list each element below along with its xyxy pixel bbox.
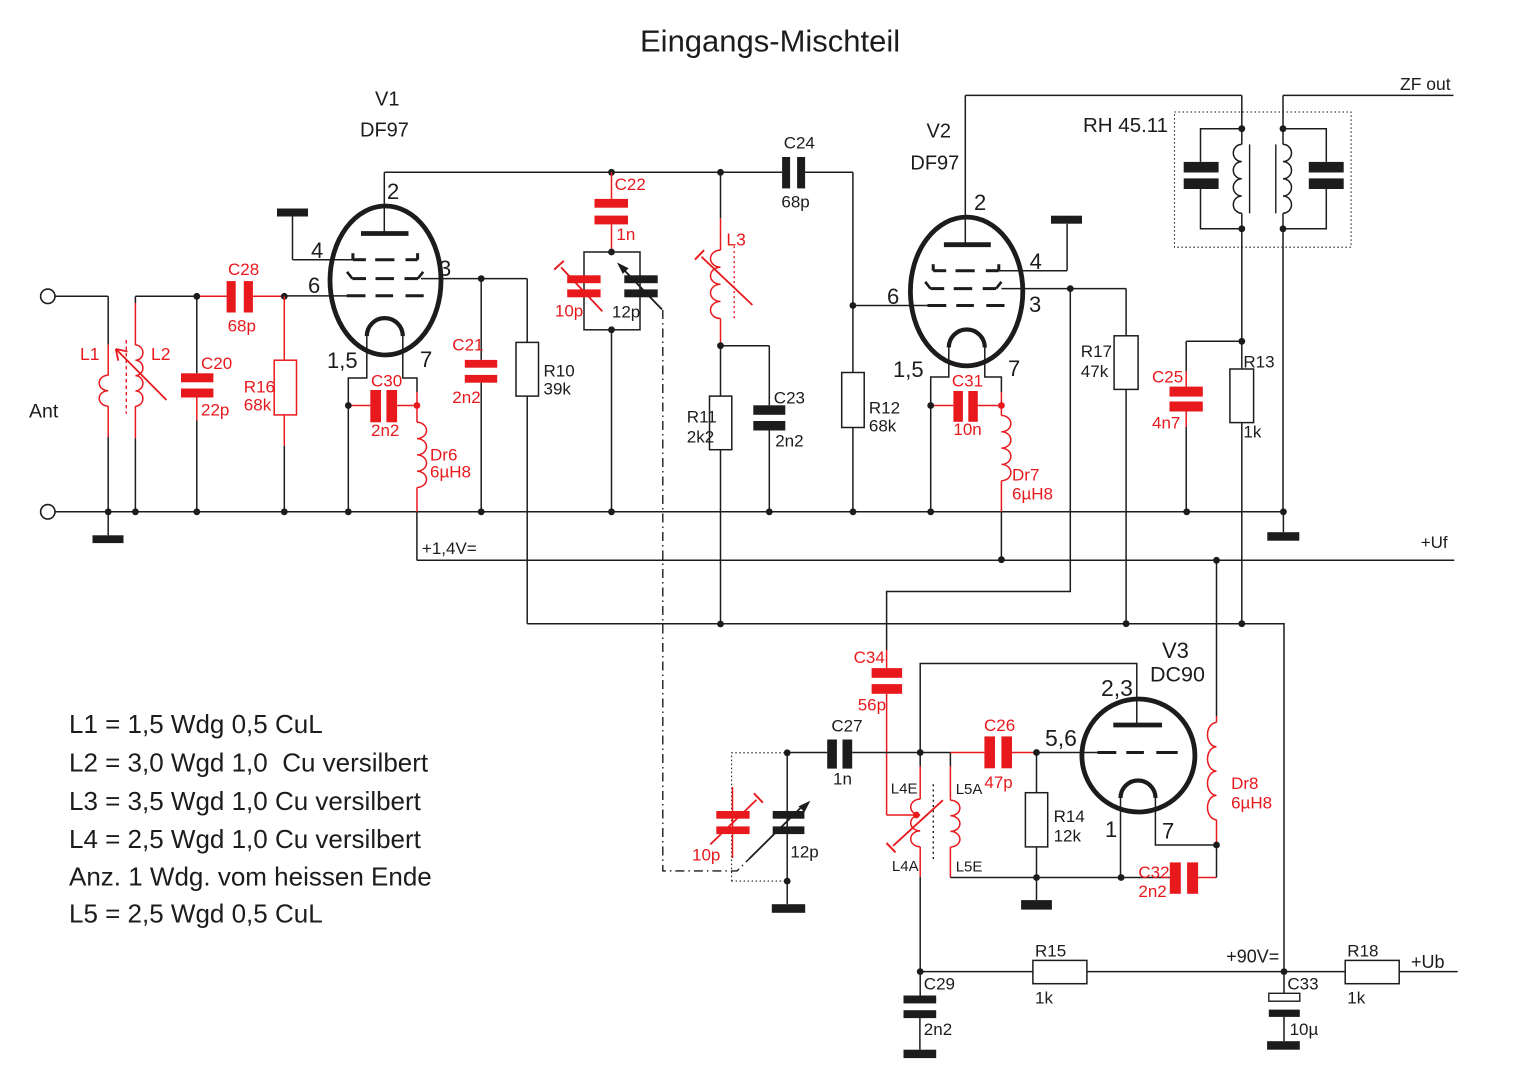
inductor L4 — [911, 753, 921, 972]
V3 pin 5,6 label — [1045, 725, 1077, 751]
svg-text:C20: C20 — [201, 354, 232, 373]
inductor L5 — [950, 753, 960, 878]
label 12p osc — [790, 843, 818, 862]
capacitor C26 — [950, 736, 1036, 768]
V2 pin 3 label — [1029, 292, 1041, 317]
inductor Dr7 — [1001, 392, 1011, 512]
label C30 — [371, 372, 402, 441]
capacitor C33 electrolytic — [1267, 972, 1300, 1050]
svg-text:RH 45.11: RH 45.11 — [1083, 114, 1168, 137]
V3 pin 7 label — [1162, 819, 1174, 844]
V2 cathode — [931, 330, 1002, 406]
resistor R16 — [274, 296, 296, 512]
wire V2 pin 6 — [853, 305, 928, 307]
node osc box bottom — [784, 878, 791, 885]
label L4E — [891, 781, 918, 798]
svg-text:C25: C25 — [1152, 368, 1183, 387]
capacitor C21 — [465, 279, 497, 512]
label 10p — [555, 302, 583, 321]
svg-text:47k: 47k — [1081, 362, 1109, 381]
svg-text:10p: 10p — [692, 846, 720, 865]
svg-text:R10: R10 — [544, 362, 575, 381]
resistor R17 — [1114, 289, 1138, 624]
trimmer assembly box — [584, 252, 640, 330]
legend coil winding data — [69, 709, 432, 928]
node C28-R16 — [281, 293, 288, 300]
svg-text:+Ub: +Ub — [1411, 952, 1445, 972]
node R17 rail — [1123, 620, 1130, 627]
label C28 — [228, 260, 260, 336]
svg-text:R13: R13 — [1243, 353, 1274, 372]
transformer secondary winding — [1283, 129, 1292, 229]
label V2 DF97 — [910, 153, 959, 175]
capacitor C31 — [931, 391, 998, 422]
svg-text:V3: V3 — [1162, 638, 1189, 663]
inductor Dr8 — [1208, 716, 1217, 845]
trimmer capacitor 10p osc — [710, 787, 763, 858]
label R12 — [869, 399, 900, 436]
label C27 — [831, 717, 862, 789]
svg-text:2: 2 — [387, 179, 399, 204]
svg-text:L2: L2 — [151, 344, 170, 364]
dotted box oscillator trimmer — [732, 753, 788, 881]
V2 pin4 wire — [999, 224, 1067, 271]
V1 ground g2 — [277, 209, 353, 260]
wire V1 pins 1,5 to bus — [347, 406, 349, 512]
node rail-L3 — [717, 169, 724, 176]
V1 pin labels 1,5 and 7 — [327, 347, 432, 373]
node C20-C28 — [193, 293, 200, 300]
wire ZF out — [1283, 95, 1454, 128]
svg-text:6: 6 — [887, 284, 899, 309]
svg-text:+90V=: +90V= — [1226, 947, 1279, 967]
mechanical tuning link — [663, 310, 749, 871]
wire ground bus — [55, 511, 1283, 513]
node C31 right — [998, 402, 1005, 409]
capacitor C34 — [872, 650, 913, 815]
label L5A — [956, 781, 983, 798]
node pin3 V2 — [1067, 285, 1074, 292]
inductor L1 — [99, 296, 108, 512]
svg-text:L5A: L5A — [956, 781, 983, 798]
label RH 45.11 — [1083, 114, 1168, 137]
tube V1 envelope — [330, 206, 441, 355]
capacitor C22 — [595, 172, 629, 252]
svg-text:L1 = 1,5 Wdg 0,5 CuL: L1 = 1,5 Wdg 0,5 CuL — [69, 709, 323, 739]
svg-text:C34: C34 — [854, 648, 885, 667]
wire +Uf to Dr8 — [1216, 560, 1218, 716]
svg-text:L1: L1 — [80, 344, 99, 364]
label Dr6 — [430, 446, 471, 482]
node Dr7 +Uf — [998, 556, 1005, 563]
svg-text:2n2: 2n2 — [924, 1020, 952, 1039]
V1 grid row g1 — [347, 294, 424, 297]
svg-text:+1,4V=: +1,4V= — [422, 539, 477, 558]
V2 grid row g2 — [925, 282, 1001, 289]
V1 grid row g2 — [347, 272, 423, 279]
svg-text:+Uf: +Uf — [1421, 533, 1448, 552]
wire C24 to V2 grid — [852, 172, 854, 305]
ground symbol R14 — [1021, 878, 1052, 910]
svg-text:68p: 68p — [228, 317, 256, 336]
label V1 DF97 — [360, 120, 409, 142]
svg-text:L3 = 3,5 Wgd 1,0 Cu versilbert: L3 = 3,5 Wgd 1,0 Cu versilbert — [69, 786, 422, 816]
svg-text:L2 = 3,0 Wgd 1,0 Cu versilber: L2 = 3,0 Wgd 1,0 Cu versilbert — [69, 748, 429, 778]
label R15 — [1035, 942, 1066, 1008]
label +Ub — [1411, 952, 1445, 972]
svg-text:L5 = 2,5 Wgd 0,5 CuL: L5 = 2,5 Wgd 0,5 CuL — [69, 899, 323, 929]
antenna terminal bottom — [41, 505, 55, 519]
label R17 — [1081, 342, 1112, 381]
label R11 — [687, 408, 717, 447]
label C29 — [924, 975, 955, 1040]
label R14 — [1054, 807, 1085, 846]
label C24 — [781, 134, 814, 212]
resistor R14 — [1025, 753, 1047, 878]
svg-text:V2: V2 — [927, 121, 951, 143]
svg-text:47p: 47p — [984, 773, 1012, 792]
V1 pin 6 label — [308, 273, 320, 298]
transformer nodes — [1238, 125, 1286, 232]
capacitor C25 — [1170, 341, 1242, 512]
node V3 pin1 bottom — [1118, 874, 1125, 881]
wire V1 pin3 — [421, 278, 527, 280]
wire antenna to L1 — [55, 295, 108, 297]
label C25 — [1152, 368, 1183, 433]
svg-text:C21: C21 — [452, 336, 483, 355]
wire L4 L5 tops — [920, 752, 950, 754]
label R10 — [544, 362, 575, 399]
node V2 grid — [850, 302, 857, 309]
label V3 — [1162, 638, 1189, 663]
variable capacitor 12p osc — [749, 753, 810, 881]
svg-text:R12: R12 — [869, 399, 900, 418]
svg-text:C30: C30 — [371, 372, 402, 391]
ground symbol oscillator — [772, 881, 805, 913]
V2 anode — [944, 95, 991, 244]
antenna terminal top — [41, 289, 55, 303]
node R13 rail — [1238, 620, 1245, 627]
svg-text:2: 2 — [974, 190, 986, 215]
V2 pin labels 1,5 and 7 — [893, 356, 1020, 382]
capacitor C30 — [348, 390, 413, 422]
V1 pin 2 label — [387, 179, 399, 204]
svg-text:56p: 56p — [858, 696, 886, 715]
node pin3-C21 — [478, 275, 485, 282]
label R13 — [1243, 353, 1274, 442]
transformer core — [1250, 144, 1276, 213]
svg-text:C33: C33 — [1287, 975, 1318, 994]
V2 grid row g3 — [933, 264, 999, 271]
svg-text:4: 4 — [311, 238, 323, 263]
label L3 — [726, 230, 745, 250]
capacitor C24 — [782, 157, 805, 188]
V3 cathode — [1121, 781, 1217, 878]
resistor R15 — [1033, 960, 1087, 983]
capacitor C32 — [1170, 845, 1217, 894]
svg-text:DF97: DF97 — [910, 153, 959, 175]
label C26 — [984, 716, 1015, 792]
label L1 — [80, 344, 99, 364]
node osc box top — [784, 749, 791, 756]
svg-text:6: 6 — [308, 273, 320, 298]
wire L4 anode riser — [920, 664, 1137, 753]
label C32 — [1138, 863, 1169, 901]
wire trimmer box to bus — [611, 330, 613, 512]
svg-text:C27: C27 — [831, 717, 862, 736]
V3 pin 1 label — [1105, 817, 1117, 842]
node Dr8 pin7 — [1213, 842, 1220, 849]
wire +90V bottom rail — [920, 971, 1457, 973]
svg-text:2n2: 2n2 — [371, 421, 399, 440]
node box bottom — [608, 326, 615, 333]
wire V1 anode rail — [384, 171, 853, 173]
wire cathode rail — [950, 877, 1169, 879]
V1 pin 4 label — [311, 238, 323, 263]
svg-text:1n: 1n — [833, 770, 852, 789]
svg-text:2k2: 2k2 — [687, 428, 714, 447]
svg-text:7: 7 — [1008, 356, 1020, 381]
V2 pin 2 label — [974, 190, 986, 215]
label ZF out — [1400, 74, 1451, 94]
ground symbol secondary — [1267, 512, 1299, 541]
label R16 — [244, 378, 275, 415]
label 12p — [612, 303, 640, 322]
core line L3 — [733, 246, 735, 318]
trimmer capacitor 10p — [554, 261, 602, 312]
node C30 left — [345, 402, 352, 409]
svg-text:1k: 1k — [1347, 989, 1365, 1008]
svg-text:L4E: L4E — [891, 781, 918, 798]
svg-text:2,3: 2,3 — [1101, 675, 1133, 701]
wire secondary to ground — [1282, 229, 1284, 512]
svg-text:C22: C22 — [615, 175, 646, 194]
svg-text:6µH8: 6µH8 — [1231, 794, 1272, 813]
wire +Uf rail — [417, 559, 1454, 561]
label Dr7 — [1012, 466, 1053, 504]
svg-text:12p: 12p — [612, 303, 640, 322]
label C31 — [952, 372, 983, 440]
svg-text:C23: C23 — [774, 389, 805, 408]
svg-text:C28: C28 — [228, 260, 259, 279]
svg-text:12p: 12p — [790, 843, 818, 862]
ground symbol antenna — [93, 512, 124, 543]
label +90V= — [1226, 947, 1279, 967]
label R18 — [1347, 942, 1378, 1008]
tube V2 envelope — [910, 217, 1022, 366]
node Dr8 +Uf — [1213, 557, 1220, 564]
svg-text:R16: R16 — [244, 378, 275, 397]
label C22 — [615, 175, 646, 244]
svg-text:C26: C26 — [984, 716, 1015, 735]
node C34 tap — [913, 812, 920, 819]
trimmer arrow L4 — [887, 800, 943, 852]
svg-text:1n: 1n — [616, 225, 635, 244]
svg-text:Dr8: Dr8 — [1231, 774, 1258, 793]
label V3 DC90 — [1150, 663, 1205, 687]
inductor L2 — [135, 296, 143, 512]
svg-text:Dr7: Dr7 — [1012, 466, 1039, 485]
label C23 — [774, 389, 805, 451]
svg-text:68k: 68k — [869, 417, 897, 436]
wire V2 pin3 — [1001, 288, 1126, 290]
capacitor C23 — [721, 346, 786, 512]
V2 ground g2 — [1051, 216, 1082, 224]
svg-text:10n: 10n — [953, 420, 981, 439]
svg-text:10p: 10p — [555, 302, 583, 321]
svg-text:1k: 1k — [1243, 423, 1261, 442]
svg-text:DC90: DC90 — [1150, 663, 1205, 687]
label L4A — [892, 858, 919, 875]
svg-text:R11: R11 — [687, 408, 717, 427]
V3 grid row — [1098, 751, 1178, 754]
transformer shield box — [1175, 112, 1352, 247]
junction dots ground bus — [105, 508, 1287, 515]
V1 pin 3 label — [439, 256, 451, 281]
resistor R12 — [842, 306, 865, 512]
svg-text:C29: C29 — [924, 975, 955, 994]
node C26 R14 — [1033, 749, 1040, 756]
label C34 — [854, 648, 886, 715]
trimmer arrow L3 — [695, 250, 752, 305]
V1 anode — [361, 172, 409, 233]
svg-text:1,5: 1,5 — [893, 357, 924, 382]
svg-text:7: 7 — [1162, 819, 1174, 844]
svg-text:L5E: L5E — [956, 859, 983, 876]
node C29 junction — [917, 968, 924, 975]
node C25 junction — [1238, 338, 1245, 345]
label L5E — [956, 859, 983, 876]
V1 grid row g3 — [353, 253, 418, 260]
wire Dr6 to +Uf rail — [416, 512, 418, 561]
wire V2 pin3 to C34 — [887, 289, 1071, 650]
svg-text:2n2: 2n2 — [1138, 882, 1166, 901]
svg-text:2n2: 2n2 — [775, 432, 803, 451]
resistor R11 — [710, 346, 732, 624]
core line L1-L2 — [125, 340, 127, 414]
secondary tuning capacitor — [1283, 129, 1344, 229]
node C33 junction — [1281, 968, 1288, 975]
node R11 rail — [717, 621, 724, 628]
svg-text:68k: 68k — [244, 396, 272, 415]
capacitor C29 — [904, 972, 937, 1059]
svg-text:L4 = 2,5 Wgd 1,0 Cu versilbert: L4 = 2,5 Wgd 1,0 Cu versilbert — [69, 824, 422, 854]
svg-text:R17: R17 — [1081, 342, 1112, 361]
svg-text:7: 7 — [420, 347, 432, 372]
label L2 — [151, 344, 170, 364]
svg-text:C31: C31 — [952, 372, 983, 391]
label C21 — [452, 336, 483, 408]
core line L4-L5 — [932, 784, 934, 860]
svg-text:12k: 12k — [1054, 827, 1082, 846]
resistor R13 — [1230, 369, 1254, 624]
svg-text:1,5: 1,5 — [327, 348, 358, 373]
label 10p osc — [692, 846, 720, 865]
resistor R18 — [1345, 960, 1399, 983]
svg-text:V1: V1 — [375, 89, 399, 111]
svg-text:5,6: 5,6 — [1045, 725, 1077, 751]
capacitor C20 — [181, 296, 213, 512]
svg-text:Eingangs-Mischteil: Eingangs-Mischteil — [640, 24, 900, 59]
svg-text:R15: R15 — [1035, 942, 1066, 961]
V1 cathode — [348, 318, 417, 405]
node rail-C22 — [608, 169, 615, 176]
svg-text:3: 3 — [439, 256, 451, 281]
svg-text:22p: 22p — [201, 401, 229, 420]
V2 pin 6 label — [887, 284, 899, 309]
V2 grid row g1 — [928, 304, 1005, 307]
variable capacitor 12p — [617, 263, 662, 310]
svg-text:R14: R14 — [1054, 807, 1085, 826]
V2 pin 4 label — [1030, 249, 1042, 274]
label +1,4V= — [422, 539, 477, 558]
wire grid input — [135, 295, 348, 297]
V3 pin 2,3 label — [1101, 675, 1133, 701]
tube V3 envelope — [1082, 699, 1195, 812]
svg-text:6µH8: 6µH8 — [1012, 485, 1053, 504]
wire primary to R13 — [1241, 229, 1243, 369]
label C33 — [1287, 975, 1318, 1040]
svg-text:C32: C32 — [1138, 863, 1169, 882]
svg-text:L4A: L4A — [892, 858, 919, 875]
resistor R10 — [516, 279, 539, 624]
capacitor C27 — [788, 740, 921, 769]
label Dr8 — [1231, 774, 1272, 813]
title Eingangs-Mischteil — [640, 24, 900, 59]
svg-text:L3: L3 — [726, 230, 745, 250]
inductor Dr6 — [417, 392, 427, 512]
node L4 top — [917, 749, 924, 756]
node R14 bottom — [1033, 874, 1040, 881]
label V1 — [375, 89, 399, 111]
wire grid V3 — [1037, 752, 1098, 754]
label C20 — [201, 354, 232, 420]
svg-text:R18: R18 — [1347, 942, 1378, 961]
svg-text:1: 1 — [1105, 817, 1117, 842]
svg-text:Anz. 1 Wdg. vom heissen Ende: Anz. 1 Wdg. vom heissen Ende — [69, 862, 432, 892]
wire Dr7 to +Uf rail — [1000, 512, 1002, 560]
svg-text:2n2: 2n2 — [452, 388, 480, 407]
svg-text:39k: 39k — [544, 380, 572, 399]
node box top — [608, 249, 615, 256]
wire V2 anode to transformer — [965, 95, 1242, 128]
svg-text:1k: 1k — [1035, 989, 1053, 1008]
arrow L2 variable — [116, 349, 167, 400]
inductor L3 — [711, 172, 721, 345]
label Ant — [29, 401, 59, 423]
svg-text:C24: C24 — [784, 134, 815, 153]
svg-text:10µ: 10µ — [1290, 1020, 1319, 1039]
capacitor C28 — [197, 281, 253, 312]
label V2 — [927, 121, 951, 143]
svg-text:4n7: 4n7 — [1152, 414, 1180, 433]
primary tuning capacitor — [1184, 129, 1242, 229]
wire V2 pins 1,5 to bus — [930, 406, 932, 512]
label +Uf — [1421, 533, 1448, 552]
svg-text:4: 4 — [1030, 249, 1042, 274]
svg-text:3: 3 — [1029, 292, 1041, 317]
svg-text:DF97: DF97 — [360, 120, 409, 142]
svg-text:Ant: Ant — [29, 401, 59, 423]
svg-text:68p: 68p — [781, 193, 809, 212]
node C30 right — [414, 402, 421, 409]
node L3 bottom — [717, 342, 724, 349]
transformer primary winding — [1233, 129, 1242, 229]
V3 anode — [1113, 723, 1162, 728]
svg-text:6µH8: 6µH8 — [430, 463, 471, 482]
svg-text:ZF out: ZF out — [1400, 74, 1451, 94]
wire +90V rail — [527, 624, 1284, 972]
